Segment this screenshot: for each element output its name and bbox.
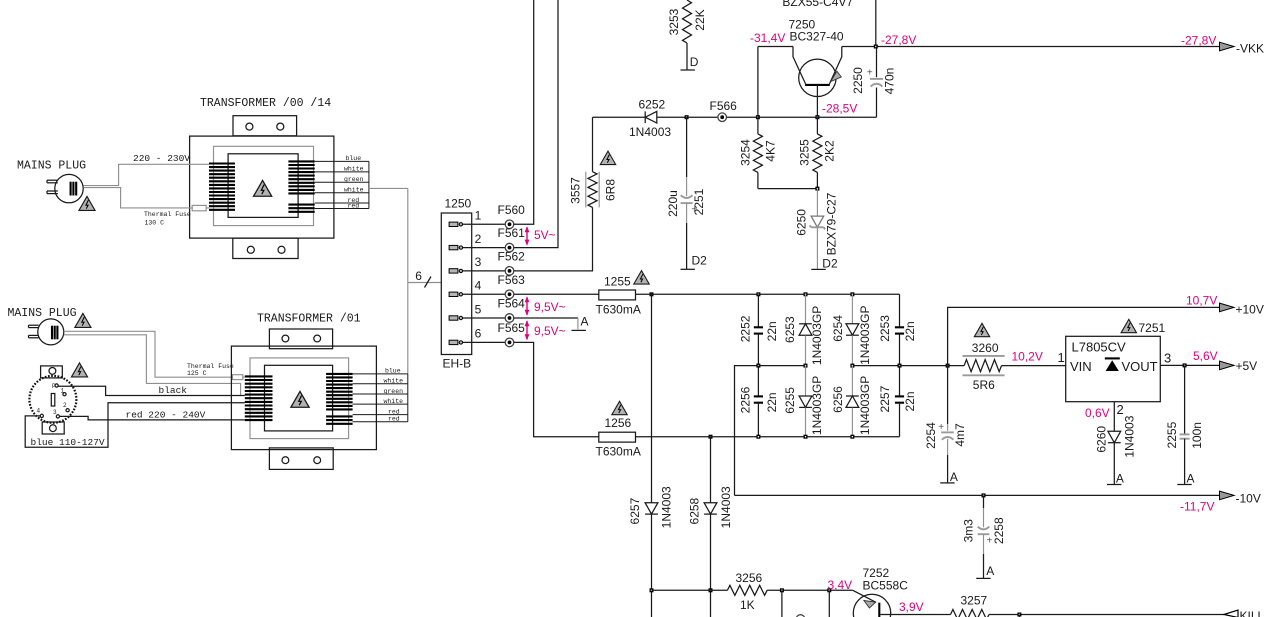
diode D6260 1N4003 — [1095, 415, 1137, 484]
pin 2 label — [1117, 402, 1124, 417]
svg-text:A: A — [1116, 471, 1124, 485]
svg-text:2257: 2257 — [878, 385, 892, 412]
svg-text:4K7: 4K7 — [764, 140, 778, 162]
wire (-27,8V rail) — [758, 46, 1220, 48]
svg-text:Thermal Fuse: Thermal Fuse — [144, 211, 191, 218]
capacitor C2254 4m7 — [924, 366, 967, 483]
wire (1255 junction down) — [651, 294, 653, 617]
voltage selector — [29, 366, 76, 434]
mains plug 1 label — [17, 159, 86, 172]
wire (node a down) — [781, 590, 783, 617]
svg-text:22n: 22n — [903, 391, 917, 411]
wire (F563 to fuse 1255) — [514, 293, 599, 295]
junction (node a) — [780, 588, 784, 592]
transformer T/01 primary winding — [245, 376, 273, 420]
svg-text:A: A — [1187, 471, 1195, 485]
junction (AC1/D6253) — [804, 292, 808, 296]
transistor Q7250 BC327-40 labels — [789, 17, 844, 43]
svg-text:1K: 1K — [740, 598, 755, 612]
svg-text:F562: F562 — [498, 250, 526, 264]
svg-text:A: A — [950, 470, 958, 484]
junction (KILL node) — [1017, 613, 1021, 617]
wire (F564 to A) — [514, 317, 578, 319]
svg-text:blue: blue — [385, 368, 401, 375]
transformer T/00/14 top mounting tab — [233, 116, 297, 136]
junction (AC2/C2256) — [756, 435, 760, 439]
ground A (F564) — [572, 315, 589, 331]
voltage 10,7V — [1186, 294, 1217, 308]
warning triangle (voltage selector) — [71, 363, 87, 377]
resistor R3253 22K — [667, 0, 707, 43]
svg-text:D: D — [690, 55, 699, 69]
svg-text:3: 3 — [53, 409, 57, 416]
diode D6252 1N4003 — [629, 98, 671, 140]
transformer T/01 secondary winding upper — [326, 374, 353, 410]
wire (F562 to R3557) — [514, 207, 593, 271]
diode D6256 1N4003GP — [831, 366, 872, 437]
svg-text:white: white — [344, 166, 364, 173]
ground D2 (C2251) — [681, 254, 708, 270]
wire (pin 6 to F565) — [463, 341, 506, 343]
fuse F566 — [710, 99, 738, 121]
svg-text:22K: 22K — [693, 9, 707, 30]
wire (selector 3 - red) — [60, 416, 245, 420]
resistor R3257 — [951, 593, 990, 617]
svg-text:2254: 2254 — [924, 422, 938, 449]
svg-text:1N4003GP: 1N4003GP — [810, 306, 824, 365]
wire (F565 to fuse 1256) — [514, 342, 599, 436]
label red 220-240V — [126, 410, 206, 421]
diode D6257 1N4003 — [628, 486, 673, 528]
wire (to R3257) — [898, 614, 951, 616]
wire (-10V rail) — [735, 494, 1220, 496]
svg-text:130 C: 130 C — [145, 220, 165, 227]
svg-text:TRANSFORMER /00 /14: TRANSFORMER /00 /14 — [200, 97, 331, 110]
wire (VIN) — [1002, 365, 1066, 367]
svg-text:white: white — [344, 187, 364, 194]
capacitor C2253 22n — [878, 294, 917, 365]
net KILL — [1224, 609, 1265, 617]
wire (base node) — [758, 116, 818, 118]
voltage -11,7V — [1180, 500, 1214, 514]
capacitor C2255 100n — [1165, 365, 1204, 484]
svg-text:2: 2 — [63, 402, 67, 409]
transformer T/00/14 title — [200, 97, 331, 110]
voltage 0,6V — [1085, 406, 1110, 420]
svg-text:3,9V: 3,9V — [899, 600, 924, 614]
svg-text:7251: 7251 — [1139, 321, 1166, 335]
wire (VOUT to +5V) — [1160, 364, 1219, 366]
svg-text:2251: 2251 — [692, 188, 706, 215]
svg-text:6258: 6258 — [687, 497, 701, 524]
svg-text:white: white — [384, 378, 404, 385]
warning triangle (1256) — [612, 401, 627, 414]
svg-text:F563: F563 — [498, 273, 526, 287]
svg-text:2255: 2255 — [1165, 421, 1179, 448]
junction (1256 out) — [709, 435, 713, 439]
junction (+10V riser) — [946, 364, 950, 368]
svg-text:+: + — [867, 67, 873, 78]
voltage 9,5V~ arrow (F563-F564) — [525, 296, 566, 316]
transformer T/00/14 secondary winding lower — [288, 205, 314, 212]
T/01 lead colour labels — [384, 368, 404, 423]
wire (node b down) — [828, 590, 830, 617]
net +5V — [1220, 359, 1258, 373]
voltage 3,4V — [828, 578, 853, 592]
wire (F561 up) — [514, 0, 558, 248]
transformer T/01 core — [265, 365, 333, 431]
svg-text:3254: 3254 — [739, 139, 753, 166]
transformer T/01 top mounting tab — [269, 329, 332, 349]
svg-text:white: white — [384, 398, 404, 405]
junction (collector node) — [756, 115, 760, 119]
voltage -31,4V — [750, 31, 785, 45]
svg-text:D2: D2 — [692, 254, 708, 268]
svg-text:T630mA: T630mA — [596, 445, 641, 459]
zener D6250 BZX79-C27 — [795, 189, 839, 270]
pin 3 label — [1164, 350, 1171, 365]
junction (cap 2250 top) — [874, 45, 878, 49]
svg-text:-10V: -10V — [1236, 491, 1261, 505]
svg-text:red 220 - 240V: red 220 - 240V — [126, 410, 206, 421]
transformer T/00/14 shield box — [214, 146, 314, 225]
label 7251 — [1139, 321, 1166, 335]
wire (+10V DC node) — [852, 365, 964, 367]
svg-text:MAINS PLUG: MAINS PLUG — [8, 307, 77, 320]
junction (1255 out) — [650, 292, 654, 296]
wire (pin 1 to F560) — [463, 223, 506, 225]
junction (C2258 top) — [982, 493, 986, 497]
svg-text:1N4003: 1N4003 — [629, 125, 671, 139]
label blue 110-127V — [31, 437, 105, 448]
svg-text:6253: 6253 — [783, 316, 797, 343]
wire (1256 junction down) — [710, 437, 712, 617]
svg-text:F564: F564 — [498, 297, 526, 311]
svg-text:1N4003GP: 1N4003GP — [858, 376, 872, 435]
capacitor C2251 220u — [666, 117, 706, 269]
svg-text:0,6V: 0,6V — [1085, 406, 1110, 420]
warning triangle (R3260) — [974, 323, 989, 336]
voltage 10,2V — [1012, 350, 1043, 364]
resistor R3256 1K — [727, 571, 767, 612]
svg-text:6255: 6255 — [783, 387, 797, 414]
svg-text:black: black — [159, 385, 188, 396]
svg-text:4: 4 — [37, 408, 41, 415]
svg-text:3253: 3253 — [667, 8, 681, 35]
svg-text:A: A — [581, 315, 589, 329]
svg-text:blue 110-127V: blue 110-127V — [31, 437, 105, 448]
svg-text:+: + — [938, 422, 944, 433]
svg-text:BZX55-C4V7: BZX55-C4V7 — [782, 0, 853, 9]
transformer T/01 bottom mounting tab — [269, 448, 333, 470]
voltage 9,5V~ arrow (F564-F565) — [525, 320, 566, 340]
ground A (D6260) — [1107, 471, 1124, 485]
ground A (C2255) — [1177, 471, 1194, 485]
bus 6 wires — [408, 269, 442, 287]
svg-text:2258: 2258 — [992, 517, 1006, 544]
junction (AC2/D6256) — [850, 435, 854, 439]
svg-text:A: A — [986, 564, 994, 578]
warning triangle (plug 1) — [79, 196, 95, 210]
svg-text:3: 3 — [475, 255, 482, 269]
svg-text:KILL: KILL — [1240, 609, 1265, 617]
svg-text:1: 1 — [61, 388, 65, 395]
svg-text:1N4003GP: 1N4003GP — [858, 306, 872, 365]
svg-text:9,5V~: 9,5V~ — [534, 300, 566, 314]
svg-text:3557: 3557 — [569, 177, 583, 204]
mains cable 2 — [64, 331, 245, 395]
ground A (C2258) — [976, 564, 994, 579]
net +10V — [1220, 303, 1264, 317]
diode D6258 1N4003 — [687, 486, 733, 528]
wire (base feed) — [652, 589, 728, 591]
transistor Q7252 BC558C labels — [863, 566, 909, 592]
wire (AC1 rail) — [636, 293, 900, 295]
svg-text:1: 1 — [475, 209, 482, 223]
fuse F563 — [498, 273, 526, 299]
svg-text:1250: 1250 — [445, 197, 472, 211]
fuse 1256 T630mA — [596, 416, 641, 459]
T/00 lead colour labels — [344, 155, 364, 209]
svg-text:2K2: 2K2 — [823, 140, 837, 162]
wire (pin 2 to F561) — [463, 247, 506, 249]
transformer T/00/14 outer frame — [190, 136, 334, 238]
svg-text:3256: 3256 — [736, 571, 763, 585]
svg-text:2: 2 — [475, 232, 482, 246]
connector 1250 label — [445, 197, 472, 211]
junction (-10V/D6255) — [804, 364, 808, 368]
svg-text:-27,8V: -27,8V — [881, 33, 916, 47]
svg-text:6260: 6260 — [1095, 426, 1109, 453]
svg-text:2253: 2253 — [878, 315, 892, 342]
junction (zener top) — [815, 187, 819, 191]
svg-text:BC558C: BC558C — [863, 578, 909, 592]
label BZX55-C4V7 — [782, 0, 853, 9]
svg-text:red: red — [388, 408, 400, 415]
capacitor C2252 22n — [739, 294, 779, 365]
voltage -27,8V (left) — [881, 33, 916, 47]
svg-text:+5V: +5V — [1236, 359, 1258, 373]
svg-text:5,6V: 5,6V — [1193, 349, 1218, 363]
net -VKK — [1220, 42, 1265, 56]
svg-text:125 C: 125 C — [187, 370, 207, 377]
wire (collector riser) — [757, 47, 759, 118]
wire (node to F566) — [687, 116, 758, 118]
mains cable 1 — [83, 164, 209, 208]
svg-text:6254: 6254 — [831, 315, 845, 342]
thermal fuse 130C — [144, 205, 206, 226]
svg-text:22n: 22n — [903, 321, 917, 341]
svg-text:1: 1 — [1058, 350, 1065, 365]
wire (pin 5 to F564) — [463, 317, 506, 319]
svg-text:6257: 6257 — [628, 497, 642, 524]
svg-text:6252: 6252 — [639, 98, 666, 112]
capacitor C2258 3m3 — [962, 495, 1006, 578]
svg-text:1256: 1256 — [605, 416, 632, 430]
svg-text:green: green — [384, 388, 404, 395]
fuse F565 — [498, 321, 526, 347]
wire (pin 3 to F562) — [463, 270, 506, 272]
diode D6253 1N4003GP — [783, 294, 824, 365]
wire (F560 up) — [514, 0, 534, 224]
svg-text:TRANSFORMER /01: TRANSFORMER /01 — [257, 312, 361, 325]
junction (D6258 bottom) — [709, 588, 713, 592]
fuse F560 — [498, 203, 526, 229]
svg-text:2252: 2252 — [739, 315, 753, 342]
transistor Q7252 — [853, 590, 898, 617]
svg-text:T630mA: T630mA — [596, 302, 641, 316]
svg-text:P: P — [52, 383, 56, 390]
transformer T/00/14 bottom mounting tab — [233, 238, 298, 258]
svg-text:MAINS PLUG: MAINS PLUG — [17, 159, 86, 172]
svg-text:220u: 220u — [666, 190, 680, 217]
warning triangle (1255) — [634, 271, 649, 284]
svg-text:5: 5 — [475, 302, 482, 316]
regulator U7251 L7805CV — [1066, 336, 1161, 401]
mains plug 2 — [29, 319, 64, 345]
junction (AC1/C2252) — [756, 292, 760, 296]
transformer T/00/14 secondary winding upper — [288, 161, 314, 193]
svg-text:6R8: 6R8 — [604, 179, 618, 201]
svg-text:10,7V: 10,7V — [1186, 294, 1217, 308]
transformer T/01 outer frame — [231, 346, 376, 450]
transformer T/01 title — [257, 312, 361, 325]
junction (-10V/C2256) — [756, 364, 760, 368]
wire (zener stub) — [875, 0, 877, 47]
wire (pin 4 to F563) — [463, 293, 506, 295]
connector 1250 body — [441, 213, 471, 355]
svg-text:2250: 2250 — [851, 67, 865, 94]
junction (+10V/C2257) — [898, 364, 902, 368]
warning triangle (plug 2) — [75, 313, 91, 327]
svg-text:F560: F560 — [498, 203, 526, 217]
junction (+10V/D6256) — [850, 364, 854, 368]
svg-text:1N4003: 1N4003 — [659, 486, 673, 528]
svg-text:3: 3 — [1164, 350, 1171, 365]
svg-text:2: 2 — [1117, 402, 1124, 417]
fuse F561 — [498, 226, 526, 252]
pin 1 label — [1058, 350, 1065, 365]
wire (R3253 to ground) — [686, 43, 688, 70]
label 220-230V — [133, 153, 190, 164]
svg-text:1N4003GP: 1N4003GP — [810, 376, 824, 435]
fuse 1255 T630mA — [596, 275, 641, 317]
junction (C2255 top) — [1183, 363, 1187, 367]
warning triangle (T/01 core) — [291, 391, 309, 407]
svg-text:5R6: 5R6 — [973, 378, 995, 392]
ground D — [681, 55, 699, 70]
svg-text:6: 6 — [475, 327, 482, 341]
transformer T/00/14 core — [228, 154, 298, 218]
svg-text:6: 6 — [415, 269, 422, 283]
svg-text:D2: D2 — [822, 257, 838, 271]
T/01 secondary lead wires — [353, 374, 408, 422]
svg-text:3257: 3257 — [961, 593, 988, 607]
svg-text:BZX79-C27: BZX79-C27 — [825, 192, 839, 255]
resistor R3255 2K2 — [798, 117, 837, 188]
svg-text:F566: F566 — [710, 99, 738, 113]
junction (D6257 bottom) — [650, 588, 654, 592]
fuse (bottom, cut) — [796, 615, 805, 617]
svg-text:10,2V: 10,2V — [1012, 350, 1043, 364]
wire (selector 4 - blue) — [25, 403, 245, 448]
warning triangle (T/00 core) — [254, 180, 272, 196]
label black — [159, 385, 188, 396]
mains plug 2 label — [8, 307, 77, 320]
svg-text:5V~: 5V~ — [534, 228, 556, 242]
svg-text:-28,5V: -28,5V — [822, 102, 857, 116]
ground D2 (D6250) — [811, 257, 838, 271]
thermal fuse 125C — [187, 363, 243, 380]
svg-text:3m3: 3m3 — [962, 519, 976, 543]
svg-text:L7805CV: L7805CV — [1072, 340, 1127, 355]
warning triangle (R3557) — [600, 151, 615, 164]
svg-text:3255: 3255 — [798, 139, 812, 166]
diode D6254 1N4003GP — [831, 294, 872, 365]
wire (R3256 to Q7252) — [767, 589, 853, 591]
svg-text:-31,4V: -31,4V — [750, 31, 785, 45]
voltage -27,8V (right) — [1181, 34, 1216, 48]
connector pin numbers 1-6 — [475, 209, 482, 341]
svg-text:3260: 3260 — [972, 341, 999, 355]
fuse F564 — [498, 297, 526, 323]
junction (AC2/D6255) — [804, 435, 808, 439]
transistor Q7250 — [793, 47, 842, 118]
connector 1250 pins — [449, 222, 462, 345]
svg-text:22n: 22n — [765, 321, 779, 341]
svg-text:6250: 6250 — [795, 209, 809, 236]
svg-text:-VKK: -VKK — [1236, 42, 1264, 56]
wire (+10V riser) — [948, 307, 1220, 365]
wire (divider bottom) — [758, 188, 818, 190]
capacitor C2250 470n — [851, 47, 896, 118]
wire (-31,4V node) — [593, 116, 687, 118]
wire (T/00 tap to bundle) — [369, 188, 408, 374]
transformer T/00/14 primary winding — [209, 164, 235, 210]
svg-text:red: red — [348, 202, 360, 209]
svg-text:3,4V: 3,4V — [828, 578, 853, 592]
svg-text:EH-B: EH-B — [443, 356, 472, 370]
junction (node b) — [827, 588, 831, 592]
voltage -28,5V — [822, 102, 857, 116]
svg-text:22n: 22n — [765, 392, 779, 412]
resistor R3557 6R8 — [569, 117, 618, 207]
svg-text:VOUT: VOUT — [1122, 359, 1158, 374]
wire (-28,5V link) — [817, 116, 876, 118]
svg-text:-11,7V: -11,7V — [1180, 500, 1214, 514]
svg-text:9,5V~: 9,5V~ — [534, 324, 566, 338]
svg-text:BC327-40: BC327-40 — [790, 30, 844, 44]
T/00 secondary lead wires — [315, 161, 369, 208]
svg-text:Thermal Fuse: Thermal Fuse — [187, 363, 234, 370]
wire (selector P - black) — [58, 386, 245, 395]
diode D6255 1N4003GP — [783, 366, 824, 437]
svg-text:F565: F565 — [498, 321, 526, 335]
transformer T/01 secondary winding lower — [326, 416, 353, 423]
svg-text:1N4003: 1N4003 — [1122, 415, 1136, 457]
junction (base node) — [815, 115, 819, 119]
wire (KILL net) — [989, 614, 1224, 616]
svg-text:F561: F561 — [498, 226, 526, 240]
svg-text:100n: 100n — [1190, 422, 1204, 449]
svg-text:470n: 470n — [882, 68, 896, 95]
junction (AC1/D6254) — [850, 292, 854, 296]
connector EH-B label — [443, 356, 472, 370]
svg-text:1255: 1255 — [604, 275, 631, 289]
svg-text:220 - 230V: 220 - 230V — [133, 153, 190, 164]
pin 2 lead — [1113, 402, 1115, 432]
svg-text:blue: blue — [346, 155, 362, 162]
